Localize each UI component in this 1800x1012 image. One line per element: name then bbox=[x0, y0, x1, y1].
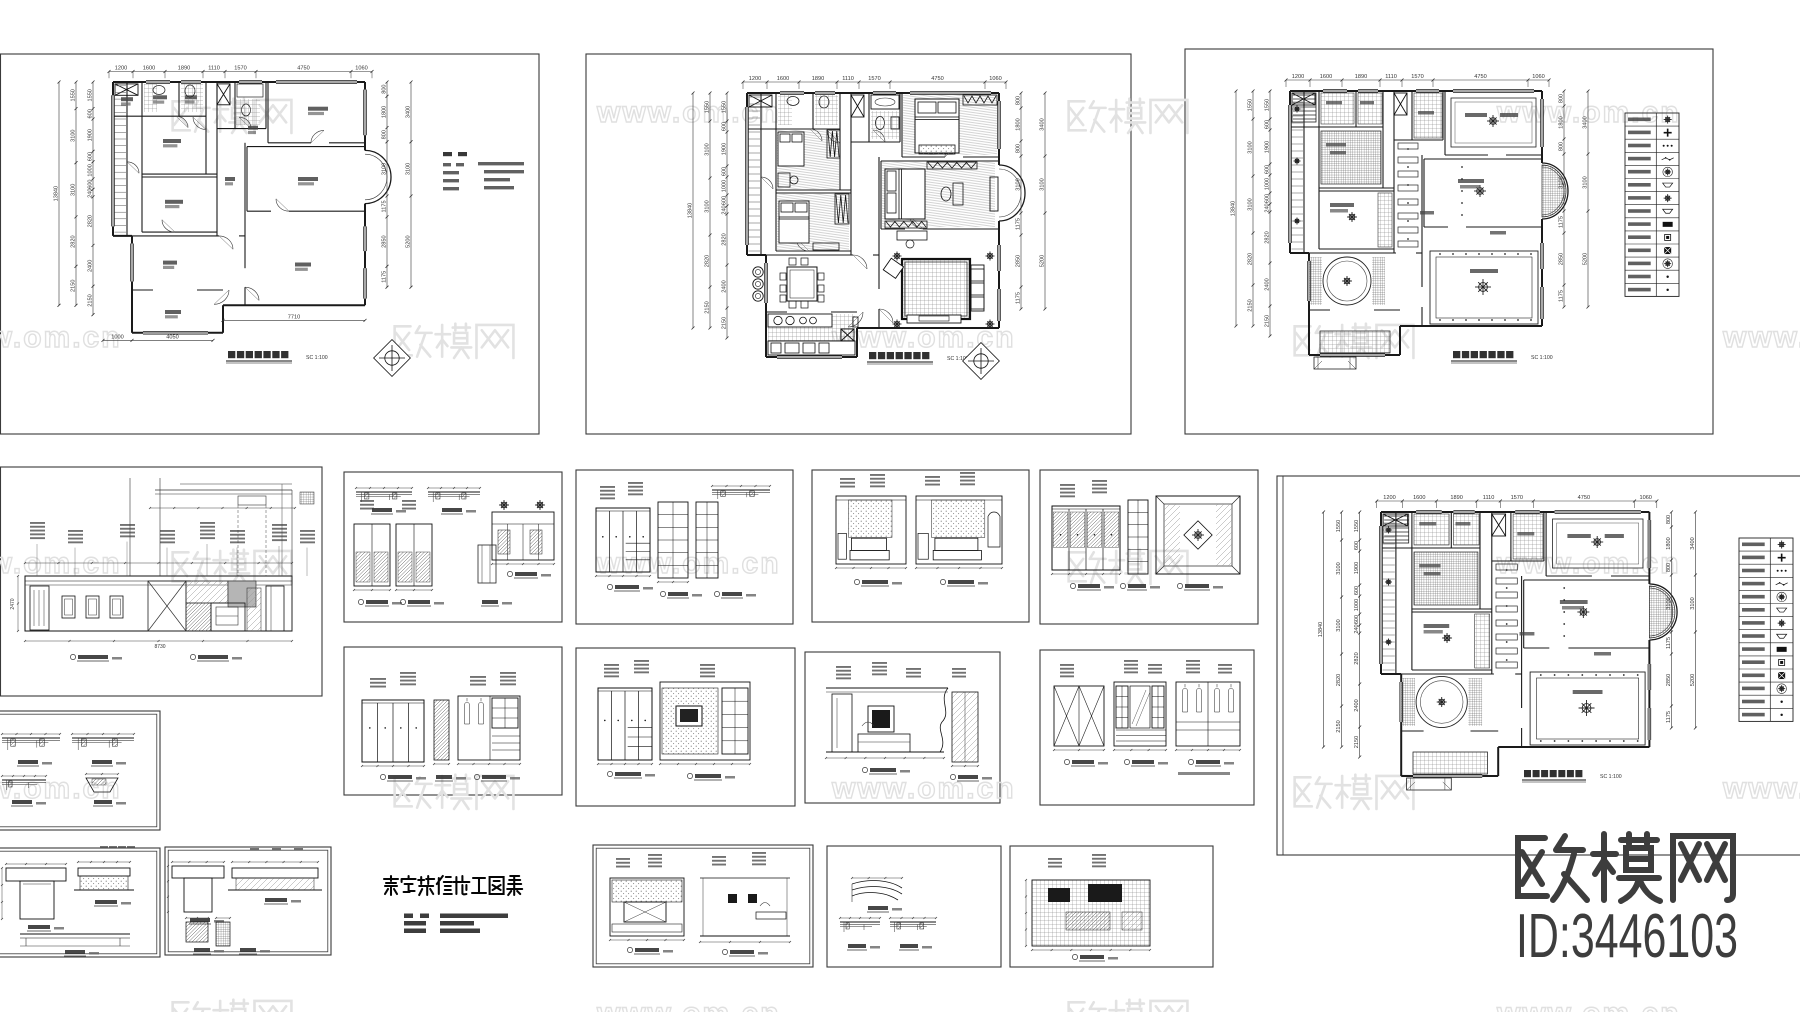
svg-text:1570: 1570 bbox=[868, 76, 880, 82]
svg-text:600: 600 bbox=[1354, 541, 1360, 550]
svg-text:13840: 13840 bbox=[1318, 622, 1324, 638]
watermark 欧模网 outline bbox=[173, 99, 292, 133]
svg-text:1550: 1550 bbox=[71, 89, 77, 101]
svg-text:2150: 2150 bbox=[722, 317, 728, 329]
svg-text:1110: 1110 bbox=[1385, 74, 1397, 80]
svg-text:2820: 2820 bbox=[705, 255, 711, 267]
svg-text:1550: 1550 bbox=[1265, 99, 1271, 111]
closet x-boxes bbox=[1383, 514, 1407, 526]
sheet S6 (wardrobe fronts) border bbox=[1040, 650, 1254, 805]
svg-text:1110: 1110 bbox=[208, 66, 220, 72]
svg-text:600: 600 bbox=[1354, 586, 1360, 595]
svg-text:3400: 3400 bbox=[1690, 537, 1696, 549]
plan title bbox=[869, 352, 876, 359]
two tall door panels bbox=[354, 524, 390, 586]
big watermark 欧模网 bbox=[1518, 834, 1733, 901]
svg-text:4750: 4750 bbox=[1474, 74, 1486, 80]
corridor dots bbox=[1407, 148, 1409, 150]
svg-text:1550: 1550 bbox=[705, 101, 711, 113]
bed 2 bbox=[778, 132, 804, 166]
armchair bbox=[883, 258, 903, 278]
svg-text:SC 1:100: SC 1:100 bbox=[1531, 355, 1553, 361]
balcony rungs bbox=[1292, 94, 1304, 96]
plan title bbox=[228, 351, 235, 358]
sheet S1 wardrobe elevations bbox=[595, 482, 771, 598]
ceiling coffer bbox=[1156, 496, 1240, 574]
side panel detail bbox=[952, 692, 978, 762]
small leader labels bbox=[1419, 522, 1436, 526]
svg-text:www.om.cn: www.om.cn bbox=[0, 547, 122, 580]
svg-text:800: 800 bbox=[1559, 94, 1565, 103]
plan title bbox=[1453, 351, 1460, 358]
svg-text:1890: 1890 bbox=[178, 66, 190, 72]
bay window arc bbox=[1542, 163, 1568, 219]
svg-text:2850: 2850 bbox=[382, 235, 388, 247]
svg-text:600: 600 bbox=[88, 152, 94, 161]
sheet S5 (living elevation) border bbox=[805, 652, 1000, 803]
svg-text:2150: 2150 bbox=[1336, 720, 1342, 732]
SHEET B: furnished floor plan bbox=[688, 76, 1047, 379]
notes text block sheet A bbox=[443, 152, 452, 156]
svg-text:3100: 3100 bbox=[71, 129, 77, 141]
floor plan walls bbox=[1380, 511, 1678, 778]
svg-text:4750: 4750 bbox=[1578, 495, 1590, 501]
bay window arc bbox=[1649, 584, 1677, 640]
svg-text:1110: 1110 bbox=[842, 76, 854, 82]
svg-text:1550: 1550 bbox=[1336, 520, 1342, 532]
watermark 欧模网 outline bbox=[1295, 775, 1414, 809]
svg-text:1200: 1200 bbox=[1292, 74, 1304, 80]
svg-text:www.om.cn: www.om.cn bbox=[1722, 772, 1800, 805]
small section detail bbox=[478, 545, 496, 583]
sheet S9 kitchen tile elevation bbox=[1025, 854, 1151, 961]
bed base profile bbox=[20, 933, 130, 935]
svg-text:3400: 3400 bbox=[405, 106, 411, 118]
watermark 欧模网 outline bbox=[1295, 324, 1414, 358]
watermark 欧模网 outline bbox=[173, 1000, 292, 1012]
dressing table bbox=[953, 183, 963, 205]
sheet F (bed details) border bbox=[0, 848, 160, 957]
svg-text:www.om.cn: www.om.cn bbox=[1496, 997, 1681, 1012]
study desk bbox=[897, 231, 927, 240]
sheet S3 cabinets + ceiling detail bbox=[1051, 480, 1240, 590]
bed section bbox=[78, 868, 130, 876]
watermark 欧模网 outline bbox=[1069, 99, 1188, 133]
tv cabinet bbox=[907, 315, 961, 323]
svg-text:2150: 2150 bbox=[1248, 299, 1254, 311]
striped ceiling storage bbox=[1293, 94, 1316, 96]
living ceiling double border bbox=[1430, 251, 1538, 324]
svg-text:600: 600 bbox=[87, 179, 93, 188]
bedroom1 ceiling border bbox=[1553, 519, 1644, 568]
bath fixtures sheet A bbox=[153, 86, 165, 95]
room labels bbox=[121, 95, 328, 318]
tv feature wall bbox=[660, 682, 750, 760]
sheet E (ceiling details) border bbox=[0, 711, 160, 830]
plan title bbox=[1524, 770, 1531, 777]
bay window arc bbox=[999, 165, 1025, 221]
balcony rungs bbox=[115, 85, 127, 87]
door arcs bbox=[176, 116, 188, 127]
closet x-boxes bbox=[115, 84, 138, 95]
hanger wardrobe bbox=[1176, 682, 1240, 746]
svg-text:240: 240 bbox=[1265, 203, 1271, 212]
svg-text:2850: 2850 bbox=[1559, 253, 1565, 265]
balcony flowers bbox=[1385, 527, 1392, 534]
plain wall with frames bbox=[700, 877, 790, 879]
svg-text:1600: 1600 bbox=[777, 76, 789, 82]
svg-text:1570: 1570 bbox=[1411, 74, 1423, 80]
svg-text:3100: 3100 bbox=[1690, 597, 1696, 609]
sheet F furniture details bbox=[1, 846, 135, 956]
wardrobe bed1 bbox=[963, 95, 997, 105]
svg-text:4750: 4750 bbox=[931, 76, 943, 82]
sheet S6 wardrobe fronts bbox=[1053, 660, 1241, 775]
sofa right bbox=[971, 265, 984, 311]
svg-text:www.om.cn: www.om.cn bbox=[831, 772, 1016, 805]
sheet B (furniture plan) border bbox=[586, 54, 1131, 434]
svg-text:800: 800 bbox=[381, 130, 387, 139]
living rug bbox=[902, 259, 970, 319]
svg-text:3100: 3100 bbox=[70, 184, 76, 196]
svg-text:800: 800 bbox=[1666, 515, 1672, 524]
porch below bbox=[1407, 778, 1452, 790]
compass symbol bbox=[963, 343, 1000, 380]
watermark 欧模网 outline bbox=[1069, 550, 1188, 584]
top shelf strips bbox=[356, 491, 412, 493]
dense grid bedroom2 bbox=[1414, 552, 1478, 605]
balcony flowers bbox=[1294, 106, 1301, 113]
door arcs bbox=[810, 129, 822, 141]
sheet S2 (bed elevations) border bbox=[812, 470, 1029, 622]
sheet A (structure plan) border bbox=[1, 54, 540, 434]
svg-text:3100: 3100 bbox=[705, 200, 711, 212]
X-front wardrobe bbox=[1054, 686, 1104, 746]
dimension chains bbox=[53, 66, 412, 342]
tv unit bbox=[868, 706, 894, 732]
dining round ceiling bbox=[1323, 257, 1371, 305]
svg-text:www.om.cn: www.om.cn bbox=[0, 321, 122, 354]
balcony rungs bbox=[749, 96, 761, 98]
captions bbox=[70, 654, 75, 659]
kitchen lower counter bbox=[768, 341, 855, 355]
balcony rungs bbox=[1383, 515, 1395, 517]
SHEET A: structure floor plan bbox=[53, 66, 524, 377]
svg-text:3100: 3100 bbox=[405, 163, 411, 175]
svg-text:5200: 5200 bbox=[1583, 253, 1589, 265]
svg-text:2820: 2820 bbox=[88, 215, 94, 227]
hall light boxes bbox=[1398, 143, 1418, 149]
kitchen grid bbox=[1413, 752, 1488, 774]
svg-text:2820: 2820 bbox=[722, 233, 728, 245]
floor plan walls bbox=[746, 92, 1026, 359]
bath fixtures bbox=[787, 97, 799, 106]
closet x-boxes bbox=[749, 95, 772, 107]
svg-text:1900: 1900 bbox=[88, 129, 94, 141]
svg-text:1060: 1060 bbox=[355, 66, 367, 72]
striped ceiling storage bbox=[1384, 515, 1409, 517]
svg-text:1570: 1570 bbox=[1511, 495, 1523, 501]
svg-text:1890: 1890 bbox=[1355, 74, 1367, 80]
svg-text:www.om.cn: www.om.cn bbox=[596, 96, 781, 129]
svg-text:1890: 1890 bbox=[1450, 495, 1462, 501]
svg-text:800: 800 bbox=[381, 84, 387, 93]
svg-text:3100: 3100 bbox=[1559, 176, 1565, 188]
sheet M2 wardrobe elevations bbox=[361, 672, 521, 781]
svg-text:800: 800 bbox=[1666, 563, 1672, 572]
svg-text:600: 600 bbox=[87, 109, 93, 118]
door leaf bbox=[30, 586, 49, 630]
bay window arc bbox=[365, 150, 391, 203]
floor plan walls bbox=[1289, 90, 1569, 357]
svg-text:1000: 1000 bbox=[1265, 178, 1271, 190]
small sections bbox=[186, 922, 208, 942]
svg-text:13840: 13840 bbox=[688, 203, 694, 219]
watermark 欧模网 outline bbox=[1069, 1000, 1188, 1012]
svg-text:2850: 2850 bbox=[1666, 674, 1672, 686]
svg-text:2150: 2150 bbox=[71, 280, 77, 292]
dining round ceiling bbox=[1416, 676, 1467, 727]
svg-text:240: 240 bbox=[87, 188, 93, 197]
svg-text:1550: 1550 bbox=[722, 101, 728, 113]
svg-text:800: 800 bbox=[1016, 96, 1022, 105]
svg-text:2400: 2400 bbox=[87, 260, 93, 272]
dimension chains bbox=[688, 76, 1047, 340]
ceiling layer bbox=[1292, 93, 1566, 369]
svg-text:1800: 1800 bbox=[1559, 116, 1565, 128]
legend table bbox=[1625, 113, 1679, 296]
sheet G table/bed details bbox=[167, 848, 322, 954]
sheet S1 (wardrobe elevations) border bbox=[576, 470, 793, 624]
svg-text:1900: 1900 bbox=[722, 143, 728, 155]
svg-text:800: 800 bbox=[1559, 142, 1565, 151]
svg-text:3100: 3100 bbox=[705, 143, 711, 155]
svg-text:600: 600 bbox=[722, 167, 728, 176]
svg-text:1800: 1800 bbox=[1666, 537, 1672, 549]
sheet H inner left border bbox=[1282, 476, 1284, 855]
svg-text:SC 1:100: SC 1:100 bbox=[1600, 774, 1622, 780]
sheet D elevation drawings bbox=[10, 478, 315, 661]
svg-text:1900: 1900 bbox=[1354, 562, 1360, 574]
cross brace panel bbox=[148, 581, 186, 631]
svg-text:1600: 1600 bbox=[1320, 74, 1332, 80]
svg-text:1175: 1175 bbox=[1016, 292, 1022, 304]
bed 3 bbox=[779, 201, 809, 243]
sheet S2 bed elevations bbox=[835, 472, 1003, 586]
svg-text:600: 600 bbox=[1265, 194, 1271, 203]
watermark 欧模网 outline bbox=[395, 324, 514, 358]
svg-text:600: 600 bbox=[722, 122, 728, 131]
svg-text:2820: 2820 bbox=[1248, 253, 1254, 265]
picture frame bbox=[62, 596, 75, 618]
svg-text:2820: 2820 bbox=[1336, 674, 1342, 686]
closet 2 bbox=[827, 130, 840, 158]
bath tile floors sheet A bbox=[144, 84, 157, 112]
watermark 欧模网 outline bbox=[173, 550, 292, 584]
svg-text:1060: 1060 bbox=[989, 76, 1001, 82]
svg-text:1200: 1200 bbox=[115, 66, 127, 72]
svg-text:1600: 1600 bbox=[143, 66, 155, 72]
svg-text:600: 600 bbox=[722, 196, 728, 205]
sheet E ceiling details bbox=[1, 733, 135, 806]
svg-text:2150: 2150 bbox=[88, 294, 94, 306]
compass symbol bbox=[374, 340, 411, 377]
sheet S4 (tv wall elevations) border bbox=[576, 648, 795, 806]
svg-text:3100: 3100 bbox=[1666, 597, 1672, 609]
sheet M1 (cabinet elevations) border bbox=[344, 472, 562, 622]
svg-text:2150: 2150 bbox=[705, 301, 711, 313]
svg-text:600: 600 bbox=[1265, 165, 1271, 174]
svg-text:1200: 1200 bbox=[1383, 495, 1395, 501]
svg-text:1175: 1175 bbox=[1559, 290, 1565, 302]
kitchen grid bbox=[1320, 331, 1390, 353]
svg-text:1900: 1900 bbox=[1265, 141, 1271, 153]
svg-text:1800: 1800 bbox=[381, 106, 387, 118]
ceiling layer bbox=[1383, 514, 1675, 790]
bedroom3 ceiling bbox=[1347, 212, 1357, 222]
torn edge bbox=[940, 688, 948, 752]
svg-text:3100: 3100 bbox=[1040, 178, 1046, 190]
bay seat bbox=[990, 177, 998, 211]
SHEET H: ceiling plan (large) bbox=[1318, 495, 1793, 790]
sheet G (table details) border bbox=[165, 847, 331, 955]
svg-text:600: 600 bbox=[1265, 120, 1271, 129]
ceiling structure lines bbox=[129, 478, 131, 576]
tiled ceilings bbox=[1414, 514, 1449, 545]
svg-text:1060: 1060 bbox=[1532, 74, 1544, 80]
picture frame bbox=[86, 596, 99, 618]
svg-text:1060: 1060 bbox=[1639, 495, 1651, 501]
svg-text:1175: 1175 bbox=[1666, 711, 1672, 723]
bay hatch bbox=[1649, 586, 1675, 638]
sheet S5 living elevation bbox=[825, 662, 992, 781]
watermark 欧模网 outline bbox=[395, 775, 514, 809]
furniture layer bbox=[753, 95, 998, 355]
svg-text:2470: 2470 bbox=[10, 598, 16, 609]
svg-text:600: 600 bbox=[1354, 615, 1360, 624]
svg-text:www.om.cn: www.om.cn bbox=[596, 997, 781, 1012]
master ceiling bbox=[1577, 606, 1589, 618]
svg-text:5200: 5200 bbox=[406, 235, 412, 247]
svg-text:4750: 4750 bbox=[297, 66, 309, 72]
kitchen floor tile bbox=[768, 314, 855, 355]
title block info rows bbox=[404, 914, 413, 919]
svg-text:240: 240 bbox=[722, 205, 728, 214]
svg-text:ID:3446103: ID:3446103 bbox=[1516, 902, 1738, 971]
svg-text:1550: 1550 bbox=[1248, 99, 1254, 111]
master wardrobe bbox=[927, 162, 977, 169]
svg-text:3100: 3100 bbox=[1583, 176, 1589, 188]
closet x-boxes bbox=[1292, 93, 1315, 105]
master bed bbox=[885, 169, 925, 219]
svg-text:3100: 3100 bbox=[1336, 562, 1342, 574]
svg-text:1000: 1000 bbox=[1354, 599, 1360, 611]
svg-text:1175: 1175 bbox=[381, 200, 387, 212]
svg-text:2820: 2820 bbox=[1265, 231, 1271, 243]
svg-text:1570: 1570 bbox=[234, 66, 246, 72]
sheet M1 cabinet elevations bbox=[353, 487, 555, 606]
right pillar bbox=[266, 586, 284, 631]
legend table bbox=[1739, 538, 1793, 721]
sheet M2 (wardrobe elevations) border bbox=[344, 647, 562, 795]
svg-text:1550: 1550 bbox=[1354, 520, 1360, 532]
svg-text:1600: 1600 bbox=[1413, 495, 1425, 501]
desk 2 bbox=[778, 173, 790, 187]
leader stacks bbox=[30, 522, 45, 524]
svg-text:1175: 1175 bbox=[1016, 218, 1022, 230]
svg-text:2820: 2820 bbox=[71, 235, 77, 247]
svg-text:2150: 2150 bbox=[1265, 315, 1271, 327]
dresser 3 bbox=[813, 243, 839, 250]
bay hatch bbox=[1542, 165, 1566, 217]
svg-text:1000: 1000 bbox=[722, 180, 728, 192]
svg-text:3100: 3100 bbox=[381, 163, 387, 175]
svg-text:3100: 3100 bbox=[1016, 178, 1022, 190]
tiled ceilings bbox=[1321, 93, 1354, 124]
svg-text:2400: 2400 bbox=[722, 280, 728, 292]
hatched blocks bbox=[186, 581, 228, 603]
hall light boxes bbox=[1496, 564, 1517, 570]
kitchen counter bbox=[768, 314, 832, 327]
svg-text:1200: 1200 bbox=[749, 76, 761, 82]
wedge detail bbox=[86, 778, 118, 792]
bed 1 bbox=[915, 99, 959, 153]
bed side elevation bbox=[232, 868, 318, 878]
svg-text:2400: 2400 bbox=[1265, 278, 1271, 290]
dimension chains bbox=[1318, 495, 1697, 759]
svg-text:1175: 1175 bbox=[1559, 216, 1565, 228]
small leader labels bbox=[1326, 101, 1342, 105]
sheet H (ceiling plan big) border bbox=[1277, 476, 1800, 855]
sheet S9 (kitchen tile elevation) border bbox=[1010, 846, 1213, 967]
svg-text:3100: 3100 bbox=[1248, 141, 1254, 153]
svg-text:3400: 3400 bbox=[1040, 118, 1046, 130]
picture frame bbox=[110, 596, 123, 618]
svg-text:1890: 1890 bbox=[812, 76, 824, 82]
sheet S7 bedhead elevations bbox=[609, 852, 791, 956]
sheet S7 (bedhead elevations) border bbox=[593, 845, 813, 967]
dresser with plants bbox=[492, 512, 554, 560]
bedroom3 ceiling bbox=[1442, 633, 1452, 643]
bedroom1 ceiling border bbox=[1451, 98, 1536, 147]
svg-text:1175: 1175 bbox=[1666, 637, 1672, 649]
svg-text:5200: 5200 bbox=[1690, 674, 1696, 686]
svg-text:SC 1:100: SC 1:100 bbox=[306, 355, 328, 361]
living ceiling double border bbox=[1530, 672, 1645, 745]
sheet C (ceiling plan) border bbox=[1185, 49, 1713, 434]
svg-text:800: 800 bbox=[1016, 144, 1022, 153]
sheet S3 (cabinet+ceiling det) border bbox=[1040, 470, 1258, 624]
svg-text:8730: 8730 bbox=[154, 644, 165, 650]
svg-text:1175: 1175 bbox=[382, 271, 388, 283]
sheet S8 (curved details) border bbox=[827, 846, 1001, 967]
sheet S4 tv-wall elevations bbox=[597, 660, 751, 780]
svg-text:4050: 4050 bbox=[166, 334, 178, 340]
svg-text:3100: 3100 bbox=[1336, 619, 1342, 631]
master ceiling bbox=[1474, 185, 1486, 197]
svg-text:3400: 3400 bbox=[1583, 116, 1589, 128]
svg-text:www.om.cn: www.om.cn bbox=[1722, 321, 1800, 354]
dense grid bedroom2 bbox=[1321, 131, 1381, 184]
svg-text:1000: 1000 bbox=[87, 164, 93, 176]
sheet S8 curved panel details bbox=[839, 877, 937, 950]
svg-text:2150: 2150 bbox=[1354, 736, 1360, 748]
dining table bbox=[787, 267, 817, 301]
svg-text:1000: 1000 bbox=[111, 334, 123, 340]
tv cabinet bbox=[211, 603, 245, 631]
svg-text:7710: 7710 bbox=[288, 314, 300, 320]
svg-text:2820: 2820 bbox=[1354, 652, 1360, 664]
